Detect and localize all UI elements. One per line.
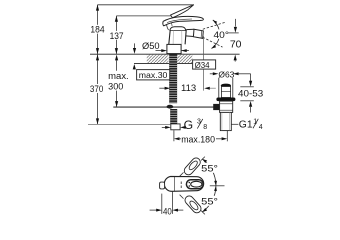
svg-text:40: 40 — [163, 206, 172, 216]
svg-text:184: 184 — [90, 24, 104, 35]
svg-text:8: 8 — [203, 124, 207, 131]
svg-text:300: 300 — [108, 82, 123, 92]
svg-text:Ø50: Ø50 — [142, 41, 160, 51]
svg-text:137: 137 — [110, 30, 124, 41]
svg-text:113: 113 — [181, 82, 196, 93]
svg-text:G1: G1 — [239, 120, 253, 131]
svg-text:G: G — [184, 118, 193, 132]
svg-text:3: 3 — [197, 118, 201, 125]
svg-text:max.: max. — [108, 71, 129, 81]
svg-text:4: 4 — [259, 124, 263, 131]
svg-text:40-53: 40-53 — [238, 88, 263, 98]
svg-text:Ø63: Ø63 — [218, 69, 234, 79]
svg-text:370: 370 — [90, 83, 103, 94]
svg-text:55°: 55° — [201, 163, 218, 174]
svg-text:max.30: max.30 — [139, 70, 168, 80]
svg-text:Ø34: Ø34 — [195, 60, 210, 70]
svg-text:55°: 55° — [201, 196, 218, 207]
svg-text:70: 70 — [230, 40, 242, 51]
svg-text:max.180: max.180 — [181, 135, 215, 145]
svg-text:40°: 40° — [214, 29, 230, 40]
